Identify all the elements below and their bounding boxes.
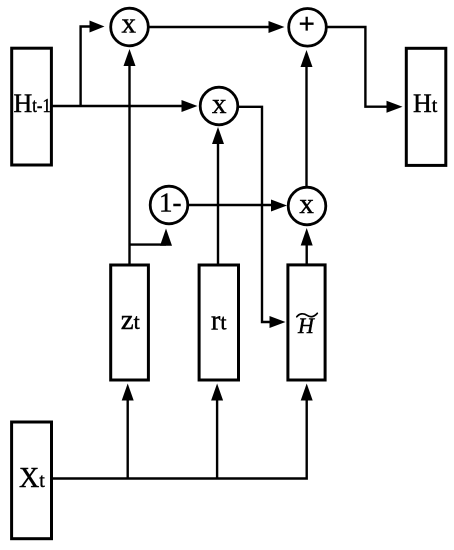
arrowhead into zt bottom xyxy=(122,384,134,401)
wire Htilde up to multiply (low) xyxy=(306,244,308,264)
wire multiply (top) to plus xyxy=(149,26,272,28)
wire zt up to multiply (top) xyxy=(128,64,130,264)
wire branch up to zt xyxy=(126,398,128,479)
arrowhead into plus bottom xyxy=(301,50,313,67)
wire rt up to multiply (mid) xyxy=(217,142,219,264)
tilde of Htilde xyxy=(297,313,318,317)
box rt xyxy=(199,265,238,380)
svg-text:x: x xyxy=(212,88,227,120)
arrowhead into multiply (top) left xyxy=(90,21,105,33)
box Htilde xyxy=(288,265,325,380)
wire one-minus to multiply (low) xyxy=(188,204,273,206)
box Ht xyxy=(406,48,446,165)
arrowhead into plus left xyxy=(269,21,285,33)
wire multiply (low) up to plus xyxy=(305,65,307,187)
wire plus to Ht xyxy=(327,27,390,107)
plus node xyxy=(289,9,327,47)
arrowhead into Ht xyxy=(387,101,403,113)
svg-text:zt: zt xyxy=(121,304,140,336)
svg-text:x: x xyxy=(122,8,137,40)
box Ht-1 xyxy=(12,48,52,165)
multiply node (top) xyxy=(111,8,149,46)
arrowhead into one-minus bottom xyxy=(160,229,172,246)
svg-text:rt: rt xyxy=(211,306,226,337)
arrowhead into multiply (mid) bottom xyxy=(212,127,224,144)
multiply node (mid) xyxy=(200,87,238,125)
wire multiply (mid) to Htilde xyxy=(238,107,272,322)
arrowhead into Htilde bottom xyxy=(301,384,313,401)
arrowhead into rt bottom xyxy=(211,384,223,401)
multiply node (low) xyxy=(288,187,326,225)
box Xt xyxy=(12,422,52,539)
one-minus node xyxy=(150,186,188,224)
svg-text:x: x xyxy=(299,188,314,220)
svg-text:1-: 1- xyxy=(159,188,182,218)
box zt xyxy=(111,265,149,380)
wire branch up to rt xyxy=(216,398,218,479)
arrowhead into Htilde left xyxy=(270,316,286,328)
wire Ht-1 to multiply (mid) xyxy=(52,105,184,107)
wire branch up to multiply (top) xyxy=(81,27,92,107)
wire Xt bus xyxy=(52,398,307,479)
arrowhead into multiply (low) left xyxy=(271,200,287,212)
wire branch to one-minus xyxy=(130,243,167,245)
arrowhead into multiply (mid) xyxy=(182,100,198,112)
arrowhead into multiply (low) bottom xyxy=(301,228,313,246)
arrowhead into multiply (top) bottom xyxy=(124,49,136,66)
